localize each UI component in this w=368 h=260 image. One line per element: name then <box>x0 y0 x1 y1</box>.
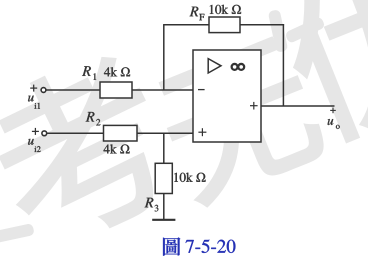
terminal circle u_i1 <box>41 88 46 93</box>
watermark partial stroke top-right diagonal <box>284 16 325 44</box>
caption figure number 7-5-20 <box>186 240 236 253</box>
watermark partial stroke top-right vertical <box>268 9 288 53</box>
watermark character 1 <box>0 41 190 260</box>
value 4k ohm for R2 <box>104 144 130 153</box>
wire: R3 bottom lead <box>163 194 165 220</box>
op-amp output plus sign <box>250 102 258 110</box>
label RF <box>190 7 205 20</box>
watermark partial stroke bottom-left <box>0 223 35 245</box>
label u_i2 <box>28 139 41 152</box>
terminal circle u_i2 <box>42 131 47 136</box>
value 10k ohm for RF <box>210 5 241 14</box>
label R3 <box>145 198 159 212</box>
label R1 <box>82 66 96 79</box>
resistor R3 body <box>155 163 172 193</box>
caption figure character <box>163 237 180 255</box>
label R2 <box>86 112 101 125</box>
wire: feedback top left segment <box>163 24 209 26</box>
ground <box>152 219 175 221</box>
wire: feedback right vertical to output <box>282 24 284 106</box>
resistor R1 body <box>100 82 132 98</box>
op-amp infinity symbol <box>232 64 244 70</box>
wire: feedback top right segment <box>240 24 284 26</box>
label u_i1 <box>28 96 40 109</box>
wire: R3 top lead <box>163 133 165 163</box>
watermark character 3 <box>268 0 368 151</box>
op-amp non-inverting input plus sign <box>198 128 206 136</box>
wire: u_i1 input to inverting input <box>46 89 193 91</box>
watermark character 2 <box>148 32 333 211</box>
value 4k ohm for R1 <box>104 67 130 76</box>
plus sign at u_i1 terminal <box>30 85 37 92</box>
resistor RF body <box>209 17 240 33</box>
wire: u_i2 input to non-inverting input <box>47 132 193 134</box>
label u_o <box>328 119 340 129</box>
plus sign at output terminal <box>330 108 336 114</box>
wire: feedback tap vertical <box>163 25 165 90</box>
resistor R2 body <box>104 125 138 141</box>
plus sign at u_i2 terminal <box>32 128 39 135</box>
value 10k ohm for R3 <box>174 173 205 182</box>
op-amp U1 box <box>193 50 261 142</box>
op-amp gain triangle <box>208 59 221 73</box>
wire: output <box>261 105 335 107</box>
op-amp inverting input minus sign <box>198 89 205 91</box>
